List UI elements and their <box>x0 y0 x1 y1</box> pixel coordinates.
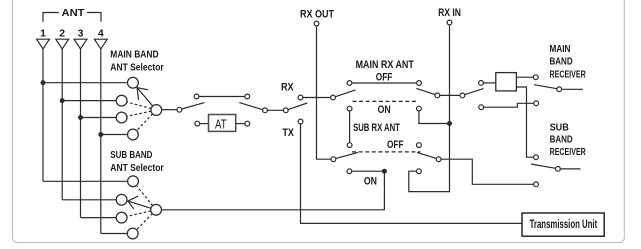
svg-text:RX: RX <box>281 81 294 93</box>
junction dot ANT3 <box>78 115 83 120</box>
svg-text:RX IN: RX IN <box>438 7 461 19</box>
RX/TX switch pole contact <box>283 108 288 113</box>
svg-text:ANT Selector: ANT Selector <box>110 162 163 174</box>
antenna ANT3 <box>74 39 87 49</box>
sub selector dashed link to pos4 <box>137 214 152 230</box>
wire RX OUT vertical <box>317 26 332 159</box>
sub receiver switch pole <box>556 167 561 172</box>
wire ANT2 to main selector pos2 <box>62 100 116 102</box>
AT input switch pole contact <box>177 107 182 112</box>
main band ANT selector S1 position contacts <box>116 77 162 140</box>
wire main ON left to sub OFF left <box>349 111 351 143</box>
wire sub ON junction down to sub selector pole <box>162 171 385 210</box>
RX/TX switch blade <box>288 103 307 110</box>
AT bypass right contact <box>245 94 250 99</box>
sub RX ANT OFF right contact <box>417 143 422 148</box>
transmission unit box U3 <box>522 213 604 236</box>
svg-text:2: 2 <box>59 28 65 40</box>
main selector dashed link to pos4 <box>137 114 152 130</box>
sub band ANT selector S2 position contacts <box>116 176 161 239</box>
main RX ANT OFF right contact <box>417 81 422 86</box>
wire sub receiver pole output <box>560 168 580 170</box>
svg-text:RECEIVER: RECEIVER <box>550 146 586 158</box>
AT bypass left contact <box>194 94 199 99</box>
sub selector dashed link to pos1 <box>137 186 153 205</box>
sub RX ANT switch right blade <box>417 152 436 158</box>
antenna ANT4 <box>94 39 107 49</box>
wire ANT2 to sub selector pos2 <box>62 199 116 201</box>
sub RX ANT OFF left contact <box>347 143 352 148</box>
svg-text:SUB: SUB <box>550 122 570 134</box>
main selector dashed link to pos2 <box>127 102 152 109</box>
wire RX contact to main RX ANT switch <box>303 97 331 99</box>
sub receiver upper contact <box>534 155 539 160</box>
svg-text:4: 4 <box>98 28 104 40</box>
wire lower contact to main receiver lower contact <box>484 103 534 107</box>
sub receiver switch blade <box>531 164 555 168</box>
svg-text:BAND: BAND <box>550 55 573 67</box>
main selector arrow to pos1 <box>137 88 153 106</box>
svg-text:MAIN RX ANT: MAIN RX ANT <box>356 59 414 71</box>
junction dot ANT1 <box>41 80 46 85</box>
wire main pole to AT switch <box>162 109 178 111</box>
sub band ANT selector S2 pole <box>151 204 162 215</box>
main RX ANT switch left blade <box>335 90 355 97</box>
wire upper contact to filter box <box>483 82 495 84</box>
wire TX line to transmission unit <box>301 124 523 223</box>
svg-text:OFF: OFF <box>387 139 404 151</box>
wire ANT2 vertical <box>61 49 63 200</box>
main RX ANT ON right contact <box>417 106 422 111</box>
main receiver switch pole <box>557 87 562 92</box>
wire AT right lead <box>236 123 245 125</box>
sub selector arrow to pos2 <box>128 201 151 208</box>
svg-text:SUB BAND: SUB BAND <box>110 149 152 161</box>
svg-text:ANT: ANT <box>62 7 86 19</box>
filter box U2 <box>496 73 517 91</box>
wire main pole to receiver selector <box>440 94 460 96</box>
RX IN jack <box>447 20 452 25</box>
receiver selector upper contact <box>479 81 484 86</box>
wire ANT1 to sub selector pos1 <box>43 180 128 182</box>
svg-text:3: 3 <box>78 28 84 40</box>
sub RX ANT switch left blade <box>336 152 358 158</box>
AT tuner right contact <box>245 121 250 126</box>
svg-text:MAIN BAND: MAIN BAND <box>110 49 159 61</box>
wire sub pole to sub receiver lower contact <box>441 159 534 184</box>
wire ANT4 vertical <box>100 49 102 234</box>
junction dot ANT2 <box>60 98 65 103</box>
svg-text:SUB RX ANT: SUB RX ANT <box>353 122 400 134</box>
svg-text:ON: ON <box>378 104 391 116</box>
svg-text:ON: ON <box>364 176 377 188</box>
svg-text:RECEIVER: RECEIVER <box>550 69 586 81</box>
main receiver lower contact <box>534 101 539 106</box>
svg-text:AT: AT <box>215 117 227 131</box>
sub RX ANT ON right contact <box>417 169 422 174</box>
wire ANT4 to sub selector pos4 <box>101 233 128 235</box>
wire AT bypass <box>199 96 245 98</box>
sub RX ANT gang dashed link <box>352 151 421 153</box>
main selector dashed link to pos3 <box>127 111 151 116</box>
main receiver switch blade <box>534 85 557 89</box>
wire ANT3 to sub selector pos3 <box>81 217 117 219</box>
svg-text:ANT Selector: ANT Selector <box>110 62 163 74</box>
AT input switch blade <box>182 103 205 109</box>
svg-text:RX OUT: RX OUT <box>300 9 334 21</box>
svg-text:TX: TX <box>282 127 294 139</box>
wire main OFF path <box>352 82 417 84</box>
main RX ANT switch left pole <box>331 95 336 100</box>
RX OUT jack <box>314 21 319 26</box>
wire main ON right to RX IN line <box>419 111 450 124</box>
sub RX ANT ON left contact <box>347 169 352 174</box>
main receiver upper contact <box>533 75 538 80</box>
wire AT left lead <box>200 123 209 125</box>
wire filter box tap to sub receiver upper contact <box>516 87 533 157</box>
junction dot sub ON <box>382 169 387 174</box>
wire AT output to RX/TX switch <box>267 109 283 111</box>
antenna ANT1 <box>37 39 50 49</box>
ANT bracket <box>43 13 59 22</box>
TX contact <box>298 119 303 124</box>
wire ANT3 vertical <box>80 49 82 218</box>
wire ANT3 to main selector pos3 <box>81 117 117 119</box>
AT output switch blade <box>239 103 262 110</box>
junction dot RX IN <box>447 121 452 126</box>
RX contact <box>298 95 303 100</box>
AT output switch pole contact <box>263 108 268 113</box>
svg-text:BAND: BAND <box>550 134 573 146</box>
wire filter box to main receiver upper contact <box>516 76 533 78</box>
main RX ANT gang dashed link <box>353 100 417 102</box>
main RX ANT switch right pole <box>435 93 440 98</box>
junction dot ANT4 <box>98 132 103 137</box>
sub selector dashed link to pos3 <box>127 211 151 216</box>
antenna ANT2 <box>56 39 69 49</box>
wire ANT1 to main selector pos1 <box>43 82 128 84</box>
sub receiver lower contact <box>534 182 539 187</box>
receiver selector pole <box>460 93 465 98</box>
svg-text:MAIN: MAIN <box>550 43 571 55</box>
sub RX ANT switch right pole <box>436 157 441 162</box>
wire main receiver pole output <box>562 88 583 90</box>
sub RX ANT switch left pole <box>331 157 336 162</box>
wire ANT4 to main selector pos4 <box>101 134 128 136</box>
main RX ANT switch right blade <box>416 88 435 94</box>
wire RX IN vertical <box>409 25 450 192</box>
svg-text:OFF: OFF <box>376 72 393 84</box>
wire ANT1 vertical <box>42 49 44 181</box>
svg-text:Transmission Unit: Transmission Unit <box>530 219 598 231</box>
receiver selector lower contact <box>479 105 484 110</box>
main band ANT selector S1 pole <box>151 105 162 116</box>
main RX ANT OFF left contact <box>347 81 352 86</box>
main RX ANT ON left contact <box>347 106 352 111</box>
svg-text:1: 1 <box>40 28 46 40</box>
AT tuner box U-AT <box>209 115 236 132</box>
AT tuner left contact <box>195 121 200 126</box>
wire sub ON contact to junction <box>352 170 385 172</box>
receiver selector blade <box>465 89 484 95</box>
